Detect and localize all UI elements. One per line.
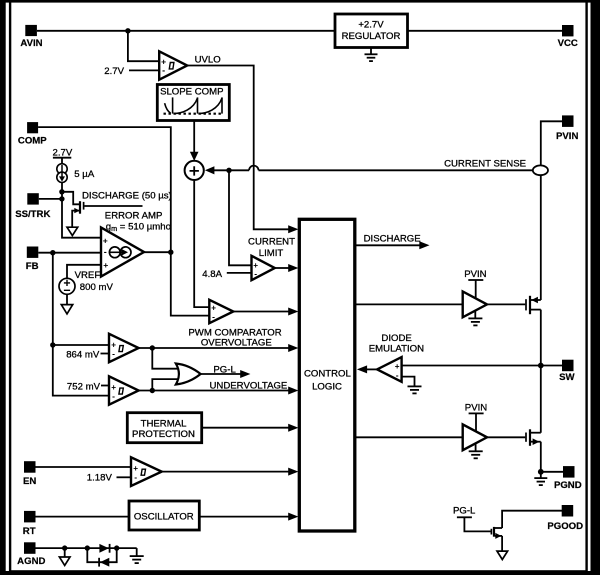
svg-text:-: - (134, 472, 137, 482)
svg-text:-: - (104, 247, 107, 257)
wire 2.7V to UVLO - input (129, 69, 159, 71)
wire SW sense to diode emulation + input (402, 365, 562, 367)
wire PVIN to current sense (541, 121, 562, 165)
svg-text:PG-L: PG-L (453, 506, 476, 517)
wire regulator to VCC (408, 30, 563, 32)
ground discharge FET (67, 227, 78, 235)
pin RT (23, 511, 36, 537)
pin AGND (17, 542, 45, 567)
ground diode emulation (408, 386, 422, 393)
svg-text:-: - (112, 391, 115, 401)
svg-text:1.18V: 1.18V (87, 473, 113, 484)
block THERMAL PROTECTION (127, 413, 201, 443)
svg-text:+: + (103, 235, 108, 245)
svg-text:SLOPE COMP: SLOPE COMP (160, 87, 223, 98)
wire SS/TRK to node (39, 198, 62, 200)
svg-text:LOGIC: LOGIC (312, 381, 342, 392)
node OV to OR gate (150, 345, 155, 350)
pin PVIN (556, 115, 578, 142)
pin VCC (558, 25, 578, 49)
svg-text:PGOOD: PGOOD (547, 521, 583, 532)
wire diode emulation output into control logic (367, 368, 378, 370)
svg-text:5 µA: 5 µA (74, 169, 95, 180)
wire current sense into summing junction (205, 166, 215, 174)
wire slope comp to summing junction (193, 121, 195, 153)
pin COMP (18, 122, 47, 146)
transistor Q3 low-side FET (526, 429, 541, 446)
svg-text:+: + (103, 260, 108, 270)
supply bar PG-L (457, 516, 472, 518)
wire 752 mV to + input (101, 385, 109, 387)
svg-text:-: - (396, 370, 399, 380)
pin PGOOD (547, 505, 583, 532)
svg-text:gm = 510 µmho: gm = 510 µmho (106, 221, 171, 233)
wire AGND net (36, 547, 137, 549)
wire RT to oscillator (36, 516, 130, 518)
regulator U2 +2.7V REGULATOR (335, 14, 408, 48)
ground regulator (365, 48, 378, 62)
node FB rail to OV comparator (50, 342, 55, 347)
wire SW to low-side FET drain (540, 366, 542, 433)
supply 2.7V (soft-start source) (53, 147, 73, 163)
node diode pair left (85, 545, 90, 550)
svg-text:VCC: VCC (558, 38, 578, 49)
ground AGND signal ground (64, 548, 66, 557)
svg-text:-: - (162, 65, 165, 75)
diode D1 (99, 544, 109, 553)
wire PGOOD FET source to ground (501, 536, 503, 551)
wire COMP to error amp output node (38, 127, 209, 316)
svg-text:PROTECTION: PROTECTION (132, 429, 195, 440)
svg-text:-: - (254, 268, 257, 278)
wire FB rail down to OV/UV comparators (53, 253, 109, 396)
block OSCILLATOR (129, 501, 199, 530)
wire UVLO output to control logic (187, 66, 289, 230)
comparator diode emulation (377, 357, 402, 382)
wire AVIN junction to UVLO + input (128, 31, 159, 61)
svg-text:DISCHARGE (50 µs): DISCHARGE (50 µs) (82, 191, 172, 202)
buffer high-side driver (463, 292, 487, 318)
summing junction (185, 161, 204, 180)
svg-text:CURRENT: CURRENT (248, 236, 295, 247)
ground VREF (61, 305, 72, 314)
svg-text:-: - (112, 348, 115, 358)
wire OV node to OR gate top input (152, 348, 178, 369)
wire current source to node (62, 183, 101, 238)
svg-text:EN: EN (23, 476, 36, 487)
wire hop over UVLO line (249, 166, 258, 171)
pin AVIN (20, 25, 42, 49)
wire driver to low-side FET gate (487, 436, 525, 438)
current source I1 5uA (57, 164, 95, 183)
wire current limit output to control logic (275, 267, 289, 269)
node UV to OR gate (150, 388, 155, 393)
node diode pair right (114, 545, 119, 550)
svg-text:VREF: VREF (75, 270, 101, 281)
svg-text:PVIN: PVIN (465, 402, 487, 413)
wire rail to 864mV comparator + input (53, 344, 109, 346)
wire DISCHARGE output (355, 244, 420, 246)
svg-text:DIODE: DIODE (381, 333, 411, 344)
comparator PWM (209, 300, 233, 323)
transistor Q1 discharge FET (62, 192, 143, 227)
svg-text:COMP: COMP (18, 136, 47, 147)
ground PGOOD FET (497, 551, 508, 559)
pin FB (26, 247, 39, 272)
svg-text:OVERVOLTAGE: OVERVOLTAGE (201, 337, 272, 348)
current sense element (533, 165, 548, 175)
node SW (538, 363, 544, 369)
svg-text:CONTROL: CONTROL (304, 368, 352, 379)
transistor Q4 PGOOD FET (491, 527, 502, 539)
reference VREF 800 mV (59, 265, 113, 305)
svg-text:SS/TRK: SS/TRK (15, 209, 50, 220)
node current limit branch (226, 168, 231, 173)
wire FB to error amp - input (38, 252, 101, 254)
svg-text:RT: RT (23, 526, 36, 537)
svg-text:PVIN: PVIN (556, 131, 578, 142)
buffer low-side driver (463, 424, 487, 450)
comparator undervoltage 752mV (109, 376, 139, 404)
wire diode emulation - input to ground (402, 377, 415, 386)
ground high-side driver (468, 311, 482, 326)
pin PGND (554, 466, 582, 491)
diode D2 (99, 558, 109, 567)
pin SW (559, 360, 575, 383)
ground AGND earth (130, 548, 144, 563)
wire error amp output to COMP node (144, 251, 171, 253)
svg-text:REGULATOR: REGULATOR (342, 31, 401, 42)
svg-text:LIMIT: LIMIT (259, 248, 284, 259)
svg-text:ERROR AMP: ERROR AMP (105, 210, 163, 221)
wire control logic to high-side driver (355, 303, 463, 305)
wire control logic to low-side driver (355, 436, 463, 438)
svg-text:+2.7V: +2.7V (358, 20, 384, 31)
wire current sense to high-side FET drain (540, 175, 542, 300)
wire 1.18V to - input (117, 476, 132, 478)
svg-text:THERMAL: THERMAL (141, 418, 188, 429)
node error amp output (168, 250, 173, 255)
node soft-start SS/TRK (59, 196, 64, 201)
svg-text:UVLO: UVLO (195, 54, 221, 65)
svg-text:CURRENT SENSE: CURRENT SENSE (444, 158, 526, 169)
svg-text:PGND: PGND (554, 480, 582, 491)
supply bar PVIN high-side (468, 279, 483, 281)
wire OR output (201, 373, 241, 375)
svg-text:AGND: AGND (17, 556, 45, 567)
wire 864 mV to - input (101, 353, 110, 355)
svg-text:FB: FB (26, 261, 39, 272)
svg-text:OSCILLATOR: OSCILLATOR (134, 512, 194, 523)
wire diode bypass loop (87, 548, 116, 562)
svg-text:SW: SW (559, 372, 575, 383)
node soft-start top (59, 189, 64, 194)
svg-text:864 mV: 864 mV (66, 349, 100, 360)
block CONTROL LOGIC (299, 219, 355, 531)
wire OV output to control logic (139, 347, 289, 349)
ground low-side driver (469, 444, 483, 459)
wire PGND node to pin (541, 471, 563, 473)
ground PGND (534, 472, 547, 485)
wire UV output to control logic (139, 390, 289, 392)
wire high-side FET source to SW (540, 310, 542, 366)
svg-text:EMULATION: EMULATION (369, 344, 424, 355)
wire EN to comparator + input (36, 466, 132, 468)
comparator EN (131, 457, 162, 486)
svg-text:4.8A: 4.8A (202, 269, 222, 280)
wire thermal protection to control logic (202, 427, 289, 429)
svg-text:PVIN: PVIN (464, 269, 486, 280)
supply bar PVIN low-side (469, 412, 484, 414)
svg-text:800 mV: 800 mV (80, 282, 114, 293)
svg-text:2.7V: 2.7V (104, 66, 124, 77)
wire 4.8A to current limit - input (227, 272, 252, 274)
comparator overvoltage 864mV (109, 334, 139, 362)
wire PWM output to control logic (233, 311, 289, 313)
wire PGOOD FET drain to pin (502, 511, 562, 528)
wire summing junction to PWM + input (194, 181, 209, 307)
gate OR power-good (176, 364, 201, 385)
wire branch to current limit + input (229, 170, 252, 265)
svg-text:-: - (212, 311, 215, 321)
wire driver to high-side FET gate (487, 303, 525, 305)
block SLOPE COMP (157, 85, 229, 121)
svg-text:2.7V: 2.7V (53, 147, 73, 158)
transistor Q2 high-side FET (526, 296, 541, 314)
op-amp U3 error amp (101, 228, 144, 277)
pin EN (23, 461, 36, 487)
svg-text:752 mV: 752 mV (67, 381, 101, 392)
wire oscillator to control logic (199, 516, 289, 518)
wire PG-L to PGOOD FET gate (464, 517, 490, 531)
node PGND (538, 469, 544, 475)
node AGND signal ground (62, 545, 67, 550)
node AVIN junction (125, 28, 130, 33)
pin SS/TRK (15, 193, 50, 220)
svg-text:UNDERVOLTAGE: UNDERVOLTAGE (210, 381, 288, 392)
node FB (50, 250, 55, 255)
comparator current limit (252, 256, 275, 280)
svg-text:AVIN: AVIN (20, 38, 42, 49)
wire UV node to OR gate bottom input (152, 379, 178, 390)
wire low-side FET source to PGND (540, 442, 542, 472)
svg-text:DISCHARGE: DISCHARGE (364, 233, 421, 244)
comparator UVLO (159, 51, 221, 79)
wire EN comparator output to control logic (162, 471, 289, 473)
wire AVIN to regulator (37, 30, 335, 32)
